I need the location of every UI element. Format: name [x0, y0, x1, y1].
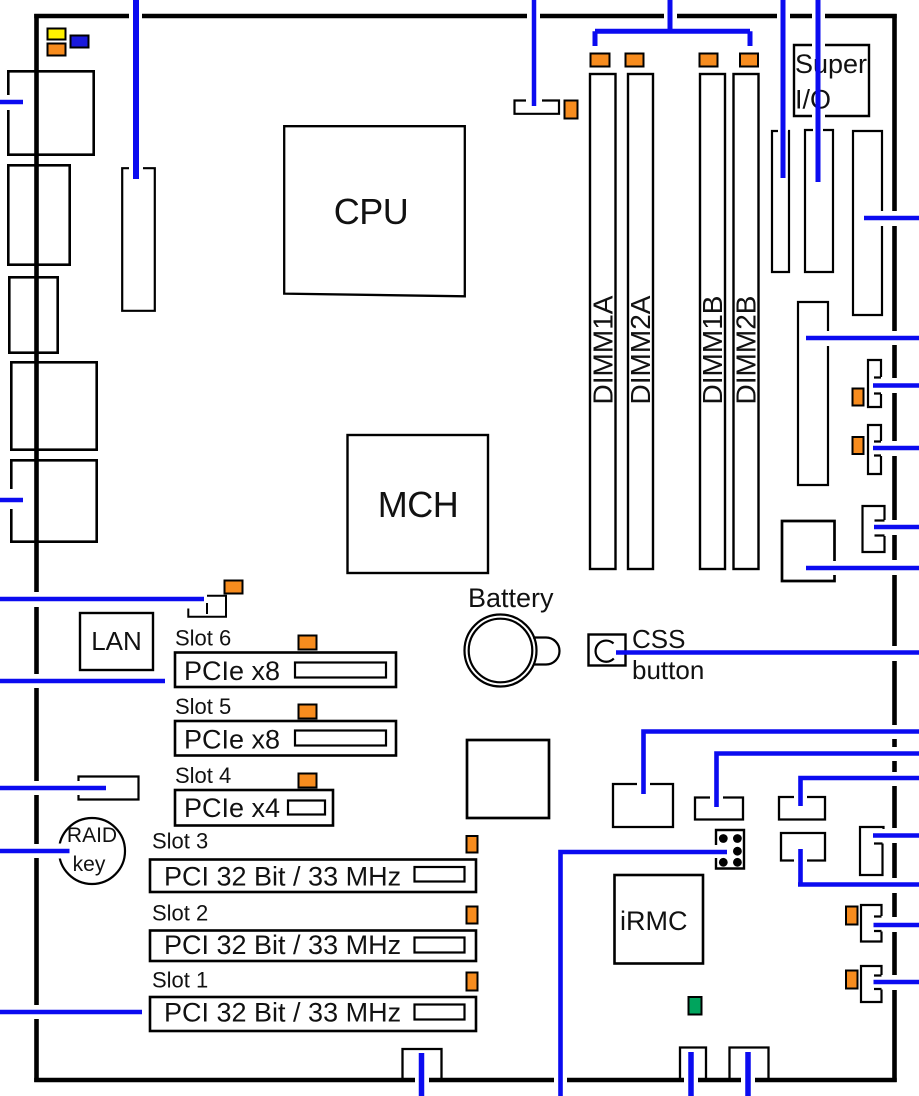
- leader from connector D: [798, 849, 919, 885]
- board outline top edge: [34, 14, 897, 19]
- svg-text:Super: Super: [795, 49, 867, 79]
- MCH box: [348, 435, 489, 573]
- svg-text:PCIe x8: PCIe x8: [184, 725, 280, 755]
- slot 3 orange tab: [467, 836, 478, 853]
- slot 5 orange tab: [299, 705, 317, 719]
- slot 6 inner connector: [295, 663, 386, 678]
- leader right from square K: [806, 566, 919, 571]
- PCIe slot 5 box: [175, 721, 396, 756]
- Super I/O box: [794, 45, 869, 116]
- leader left to block 1: [0, 100, 23, 105]
- orange tab F: [846, 907, 858, 925]
- svg-text:DIMM2A: DIMM2A: [625, 295, 656, 404]
- parallel connector (right edge): [853, 131, 882, 315]
- slot 6 orange tab: [299, 636, 317, 650]
- svg-text:Battery: Battery: [468, 583, 554, 613]
- white gap in RAID circle for leader line: [55, 844, 64, 859]
- jumper blue: [71, 36, 89, 48]
- green component: [689, 997, 702, 1015]
- leader left to slot 6 box: [0, 679, 165, 684]
- bracket connector H2: [868, 425, 881, 474]
- svg-text:RAID: RAID: [67, 824, 117, 847]
- pin header dots: [719, 834, 742, 867]
- svg-text:PCI 32 Bit / 33 MHz: PCI 32 Bit / 33 MHz: [164, 998, 401, 1028]
- battery circle: [465, 615, 537, 687]
- labels: [152, 626, 231, 993]
- orange tab beside fan connector: [565, 101, 578, 119]
- DIMM1A slot: [590, 74, 616, 569]
- bracket connector G: [861, 966, 882, 1002]
- connector D (open bottom): [781, 833, 825, 861]
- svg-text:button: button: [632, 655, 704, 685]
- leader stem to serial connector 1: [781, 0, 786, 178]
- leader from bottom connector BB2: [688, 1052, 694, 1096]
- svg-text:PCI 32 Bit / 33 MHz: PCI 32 Bit / 33 MHz: [164, 862, 401, 892]
- leader left to aux connector: [0, 786, 106, 791]
- leader right from CSS button: [616, 650, 919, 655]
- svg-text:PCIe x8: PCIe x8: [184, 656, 280, 686]
- pin header block: [716, 830, 744, 869]
- bracket connector J: [863, 506, 885, 552]
- DIMM2A orange tab: [626, 54, 644, 67]
- svg-text:Slot 2: Slot 2: [152, 901, 208, 926]
- slot 5 inner connector: [295, 731, 386, 746]
- bottom connector BB1: [403, 1049, 442, 1078]
- CPU box: [284, 126, 465, 296]
- leader right from bracket G: [874, 980, 919, 985]
- slot 2 inner connector: [415, 938, 465, 953]
- jumper orange: [48, 44, 66, 56]
- svg-text:PCIe x4: PCIe x4: [184, 793, 280, 823]
- square connector K: [782, 521, 835, 581]
- leader right from bracket J: [874, 525, 919, 530]
- battery clip tab: [533, 638, 559, 665]
- fan connector (top middle): [515, 101, 560, 114]
- leader right from parallel connector: [864, 216, 919, 221]
- external connector block 5: [11, 460, 96, 541]
- svg-text:Slot 6: Slot 6: [175, 626, 231, 651]
- leader from connector C: [801, 778, 919, 806]
- PCI slot 3 box: [150, 860, 476, 893]
- leader left to PCI slot 1: [0, 1010, 142, 1015]
- PCIe slot 4 box: [175, 790, 333, 826]
- board outline right edge: [892, 14, 897, 1082]
- leader left to block 5: [0, 498, 23, 503]
- slot 1 orange tab: [467, 973, 478, 991]
- external connector block 2: [8, 165, 69, 264]
- leader right from bracket H2: [873, 446, 919, 451]
- slot 4 inner connector: [288, 801, 325, 815]
- slot 4 orange tab: [299, 774, 317, 788]
- svg-text:Slot 3: Slot 3: [152, 829, 208, 854]
- leader stem to vertical connector: [133, 0, 139, 179]
- PCI slot 2 box: [150, 931, 476, 962]
- external connector block 3: [9, 277, 57, 352]
- leader from connector A: [644, 732, 919, 795]
- leader right from bracket E: [873, 833, 919, 838]
- slot 6 aux connector (step shape): [188, 596, 226, 617]
- square connector S1: [467, 740, 549, 818]
- DIMM1B orange tab: [700, 54, 718, 67]
- svg-text:MCH: MCH: [378, 484, 458, 525]
- slot 3 inner connector: [415, 867, 465, 882]
- external connector block 1 (top left, keyboard/mouse): [8, 71, 93, 154]
- svg-text:Slot 4: Slot 4: [175, 763, 231, 788]
- long vertical connector: [798, 302, 828, 485]
- leader from bottom connector BB3: [745, 1052, 751, 1096]
- PCI slot 1 box: [150, 997, 476, 1031]
- DIMM2A slot: [628, 74, 653, 569]
- iRMC box: [615, 875, 704, 964]
- svg-text:LAN: LAN: [91, 626, 142, 656]
- PCIe slot 6 box: [175, 653, 396, 688]
- serial connector 2: [805, 130, 833, 272]
- CSS button circle: [596, 641, 614, 662]
- leader from connector B: [717, 754, 919, 808]
- bracket connector E: [860, 827, 884, 875]
- LAN box: [80, 613, 153, 670]
- leader right from long connector: [806, 336, 919, 341]
- leader from pin header to bottom: [561, 850, 728, 1096]
- connector B (open top): [695, 798, 743, 820]
- aux connector near slot 4: [79, 777, 139, 800]
- connector C (open top): [779, 797, 825, 820]
- leader stem to serial connector 2: [816, 0, 821, 182]
- DIMM2B orange tab: [740, 54, 758, 67]
- svg-text:I/O: I/O: [795, 85, 831, 115]
- svg-text:PCI 32 Bit / 33 MHz: PCI 32 Bit / 33 MHz: [164, 930, 401, 960]
- bracket connector H1: [868, 360, 881, 407]
- orange tab above step connector: [225, 581, 243, 594]
- svg-text:DIMM1A: DIMM1A: [588, 295, 619, 404]
- slot 2 orange tab: [467, 907, 478, 924]
- leader from bottom connector BB1: [419, 1053, 425, 1096]
- leader bracket over DIMM slots: [595, 0, 750, 46]
- leader right from bracket F: [874, 923, 919, 928]
- CSS button square: [589, 635, 626, 666]
- leader left to step connector: [0, 597, 204, 602]
- orange tab H1: [853, 389, 864, 406]
- external connector block 4: [11, 362, 96, 449]
- jumper yellow: [48, 29, 66, 40]
- serial connector 1 (below Super I/O): [772, 131, 789, 272]
- svg-text:CPU: CPU: [334, 191, 409, 232]
- DIMM1B slot: [700, 74, 725, 569]
- svg-text:DIMM1B: DIMM1B: [697, 296, 728, 405]
- svg-text:Slot 5: Slot 5: [175, 694, 231, 719]
- svg-text:iRMC: iRMC: [620, 906, 688, 936]
- DIMM1A orange tab: [591, 54, 610, 67]
- connector A (open top): [613, 784, 673, 827]
- leader stem to fan connector: [532, 0, 537, 106]
- RAID key circle: [59, 818, 125, 884]
- bottom connector BB2: [680, 1048, 706, 1079]
- vertical connector below jumpers: [122, 168, 155, 311]
- DIMM2B slot: [734, 74, 759, 569]
- svg-text:Slot 1: Slot 1: [152, 968, 208, 993]
- board outline bottom edge: [34, 1078, 897, 1083]
- svg-text:DIMM2B: DIMM2B: [731, 296, 762, 405]
- bracket connector F: [861, 905, 882, 942]
- svg-text:CSS: CSS: [632, 624, 685, 654]
- orange tab H2: [853, 437, 864, 454]
- leader right from bracket H1: [873, 383, 919, 388]
- bottom connector BB3: [730, 1048, 769, 1079]
- leader left to RAID key: [0, 849, 70, 854]
- board outline left edge: [34, 14, 39, 1082]
- svg-text:key: key: [73, 853, 106, 876]
- orange tab G: [846, 971, 858, 989]
- slot 1 inner connector: [415, 1005, 465, 1020]
